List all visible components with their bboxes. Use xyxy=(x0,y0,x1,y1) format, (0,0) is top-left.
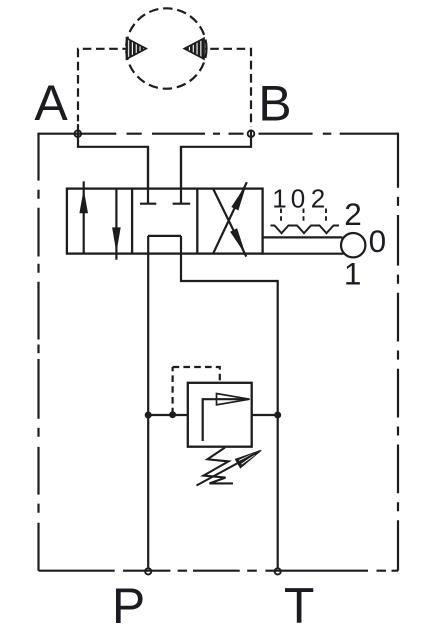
valve pos1 up arrow shaft xyxy=(83,181,85,253)
svg-text:P: P xyxy=(112,578,145,634)
detent tick 1 (dashed) xyxy=(280,209,282,223)
relief valve adjust arrowhead xyxy=(235,450,261,468)
junction dot P-line xyxy=(145,412,152,419)
valve pos2 up-right arrowhead xyxy=(231,183,247,210)
svg-text:B: B xyxy=(258,75,291,131)
relief valve pilot line top + stub (dashed) xyxy=(173,367,220,383)
wire: valve T-port to T line xyxy=(181,236,278,568)
node A circle xyxy=(75,130,82,137)
valve pos2 down-right arrowhead xyxy=(230,228,246,255)
valve center P-T bridge xyxy=(148,235,181,237)
valve center B-port stub xyxy=(180,147,182,204)
valve center B-port block T-bar xyxy=(173,203,191,205)
svg-text:1: 1 xyxy=(344,256,362,292)
wire dashed: motor right leg xyxy=(205,49,251,127)
junction dot pilot tap xyxy=(169,411,176,418)
relief valve adjust arrowhead highlight xyxy=(239,454,255,465)
valve divider 2 xyxy=(196,189,198,254)
enclosure boundary top (dash-dot) xyxy=(39,133,399,135)
enclosure boundary right (dash-dot) xyxy=(397,133,399,571)
svg-text:0: 0 xyxy=(291,184,305,214)
valve divider 1 xyxy=(131,189,133,254)
svg-text:2: 2 xyxy=(344,196,362,232)
relief valve pilot line vertical (dashed) xyxy=(172,367,174,414)
enclosure boundary bottom (dash-dot) xyxy=(39,570,399,572)
relief valve right connection xyxy=(252,414,278,416)
relief valve internal arrow xyxy=(203,399,248,441)
detent tick 2 (dashed) xyxy=(325,209,327,223)
wire: node A to valve A-port xyxy=(78,124,148,189)
detent stem bottom xyxy=(263,253,344,255)
svg-text:0: 0 xyxy=(369,223,387,259)
svg-text:1: 1 xyxy=(272,184,286,214)
valve center A-port block T-bar xyxy=(140,203,156,205)
relief valve body xyxy=(188,383,252,447)
wire dashed: motor left leg xyxy=(78,49,127,122)
motor hatched triangle right xyxy=(184,38,204,59)
relief valve spring xyxy=(204,448,234,484)
relief valve left connection xyxy=(148,414,188,416)
wire: node B to valve B-port xyxy=(181,130,251,189)
svg-text:2: 2 xyxy=(311,184,325,214)
detent tick 0 (dashed) xyxy=(303,209,305,223)
enclosure boundary left (dash-dot) xyxy=(37,133,39,571)
valve pos2 diagonal arrow up shaft xyxy=(213,182,247,253)
svg-text:A: A xyxy=(34,75,68,131)
detent stem top xyxy=(263,236,343,238)
node B circle xyxy=(248,130,255,137)
junction dot T-line xyxy=(274,412,281,419)
port node P xyxy=(145,568,151,574)
valve pos2 diagonal arrow down shaft xyxy=(213,189,246,257)
valve pos1 up arrowhead xyxy=(79,189,88,213)
valve center A-port stub xyxy=(147,147,149,204)
knob circle xyxy=(341,233,365,257)
port node T xyxy=(275,568,281,574)
hydraulic motor circle xyxy=(126,8,206,88)
valve pos1 down arrow shaft xyxy=(115,189,117,260)
detent plate with notches xyxy=(271,226,340,234)
valve pos1 down arrowhead xyxy=(112,227,121,252)
relief valve internal arrowhead (hollow) xyxy=(217,394,250,405)
svg-text:T: T xyxy=(284,577,315,633)
relief valve adjust arrow shaft xyxy=(197,451,260,485)
motor hatched triangle left xyxy=(127,38,147,59)
directional valve body xyxy=(67,189,263,254)
wire: P line valve to port P xyxy=(147,236,149,568)
